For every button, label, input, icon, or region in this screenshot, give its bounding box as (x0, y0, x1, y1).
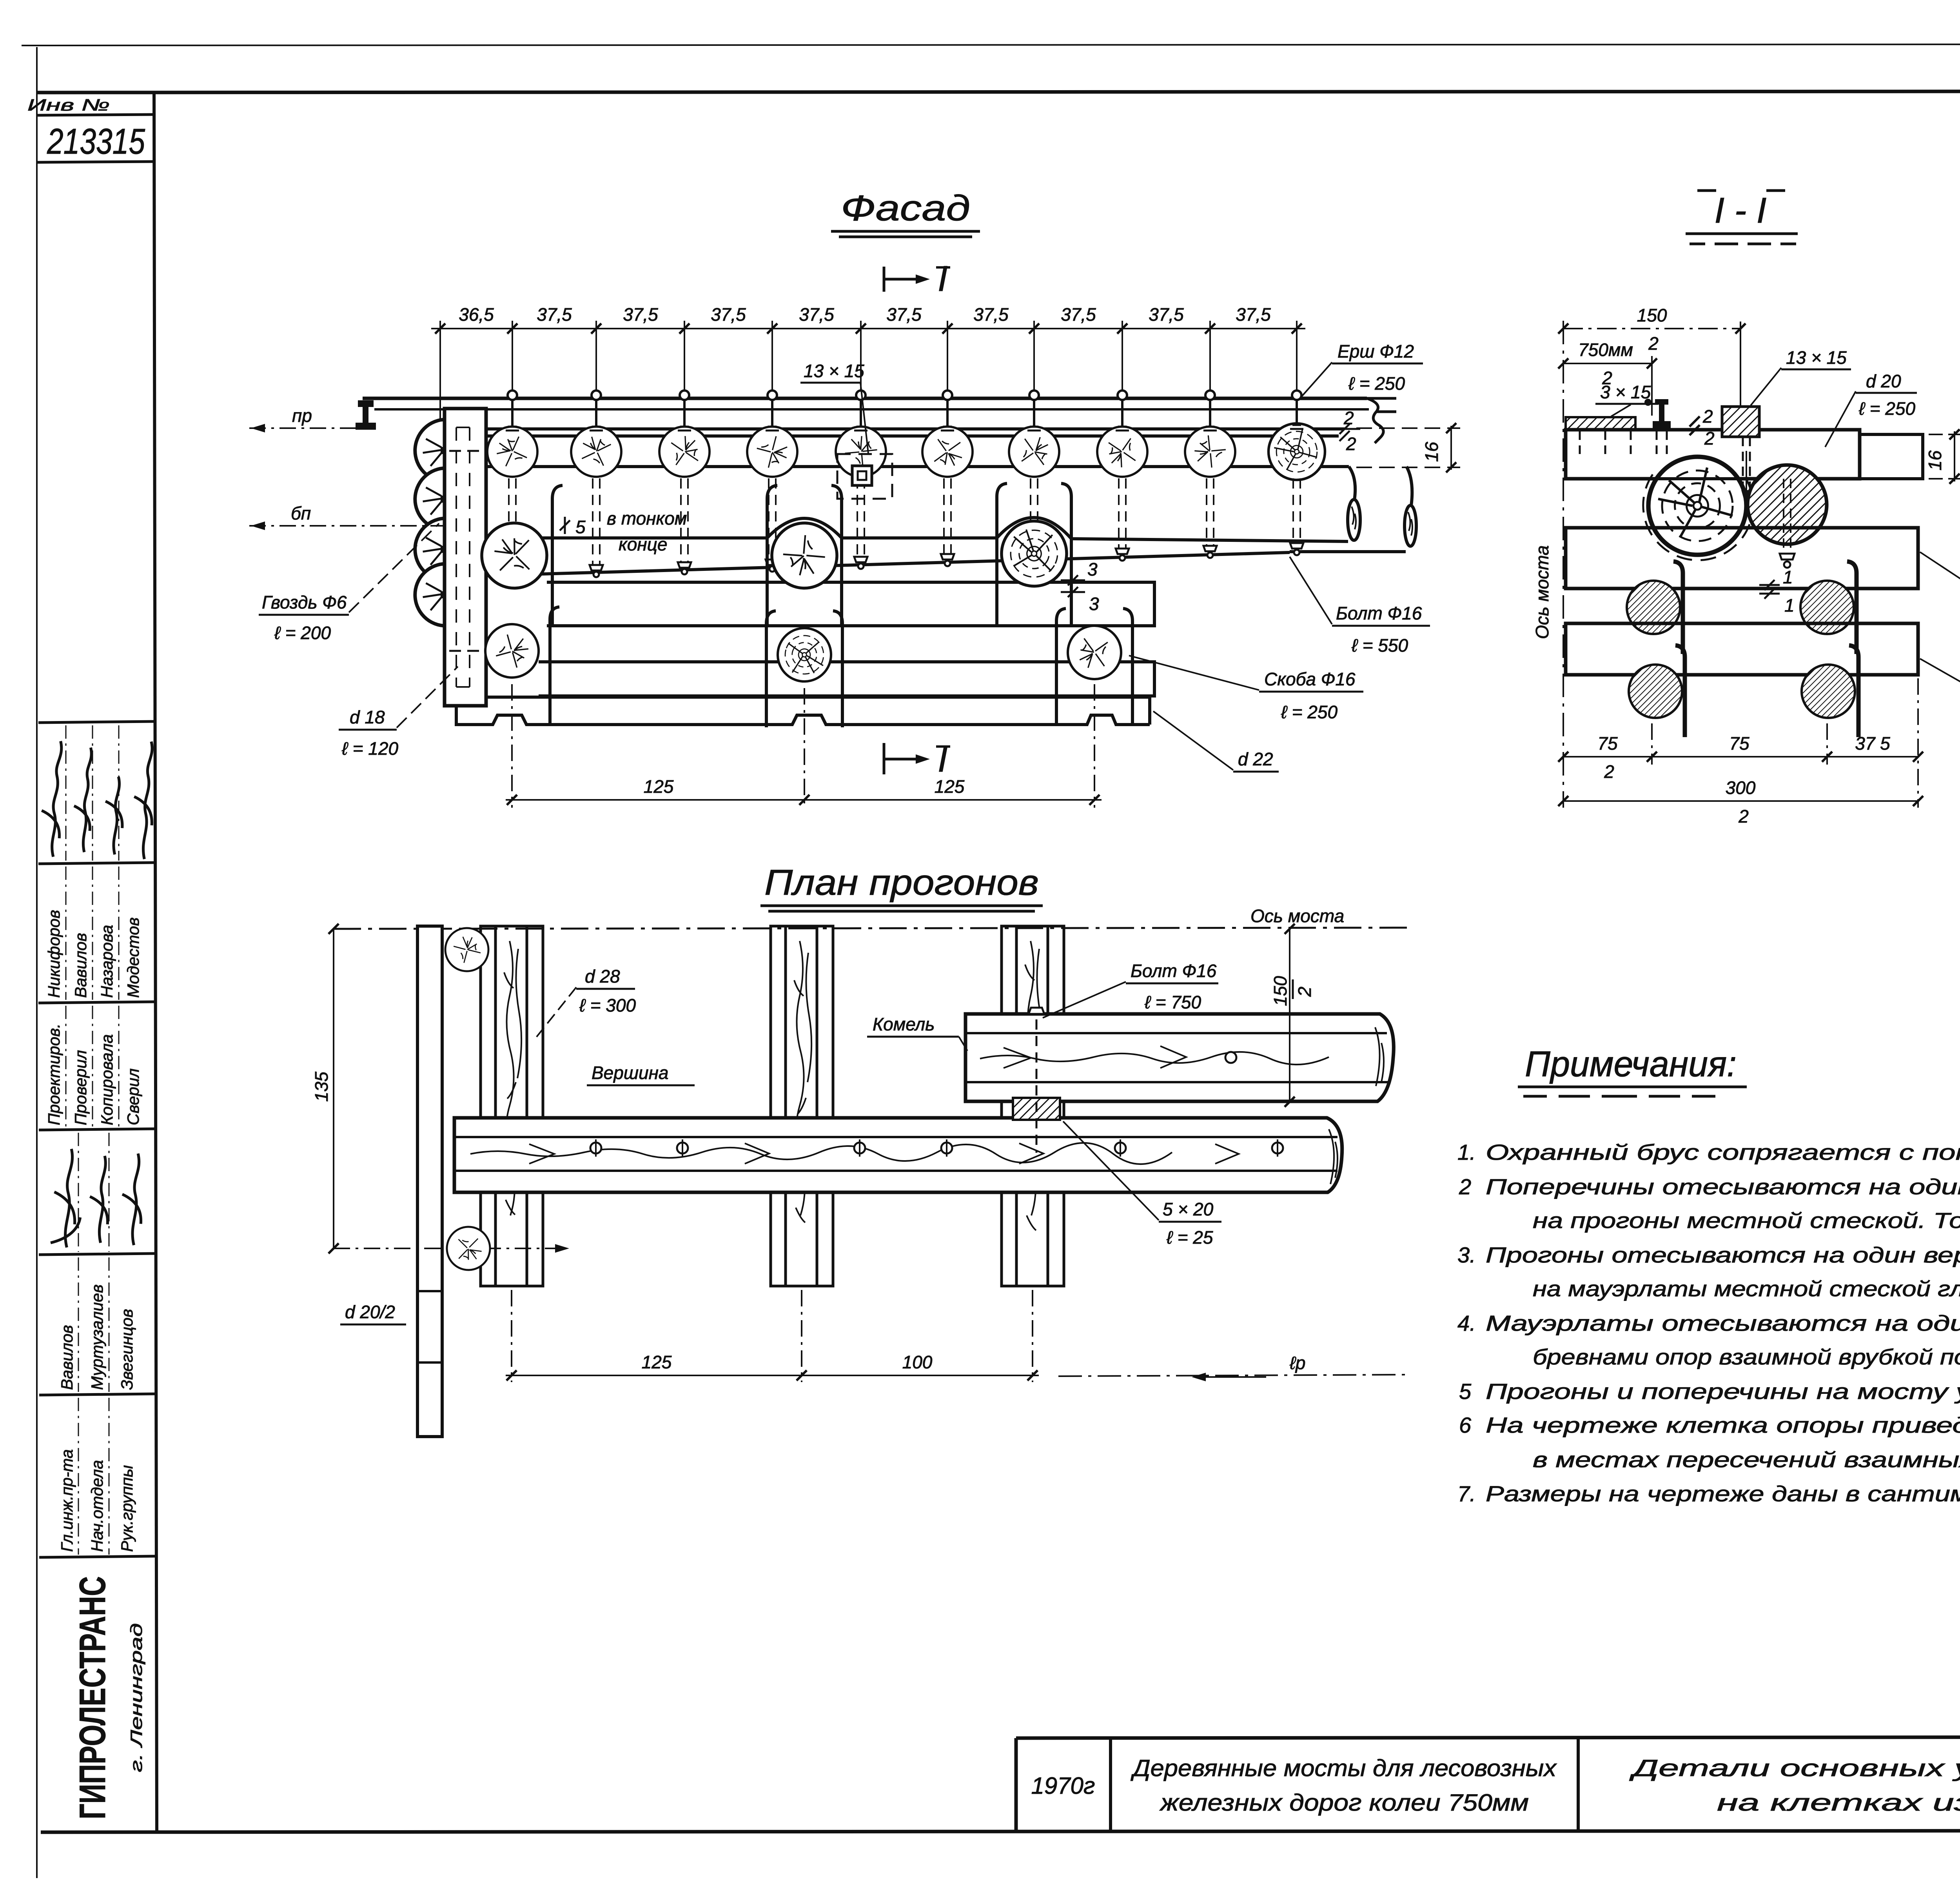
svg-text:75: 75 (1597, 733, 1618, 754)
bottom dim 125+100 (506, 1290, 1409, 1382)
svg-text:37,5: 37,5 (1236, 304, 1271, 325)
svg-text:Проектиров.: Проектиров. (45, 1024, 63, 1125)
svg-text:Болт Ф16: Болт Ф16 (1131, 961, 1217, 981)
crosstie circles row 1 (487, 416, 1325, 487)
svg-text:3: 3 (1087, 559, 1098, 579)
svg-text:d 28: d 28 (585, 966, 620, 986)
dimension labels 36.5 / 37.5 (459, 304, 1271, 325)
svg-text:Вершина: Вершина (592, 1063, 669, 1083)
svg-text:2: 2 (1346, 434, 1356, 454)
main border top (38, 91, 1960, 93)
svg-text:Ерш Ф12: Ерш Ф12 (1338, 341, 1414, 362)
names cell 1 (rotated) (45, 910, 142, 998)
deck beam top edge (363, 397, 1367, 400)
main border bottom (41, 1830, 1960, 1832)
svg-text:37,5: 37,5 (799, 304, 834, 325)
stamp column right edge (154, 93, 157, 1831)
svg-text:150: 150 (1270, 976, 1290, 1006)
svg-text:100: 100 (902, 1352, 933, 1372)
bottom dim row 1: 75/2 + 75 + 37.5 (1563, 678, 1918, 808)
bolt through pad dashed (1036, 1019, 1038, 1153)
dimension ticks (435, 323, 1302, 334)
svg-text:Никифоров: Никифоров (45, 910, 63, 998)
svg-text:37,5: 37,5 (711, 304, 746, 325)
STAMP COLUMN (left) (38, 114, 156, 1557)
dim 16 right (1929, 434, 1960, 435)
svg-text:300: 300 (1726, 778, 1756, 798)
bolt washer 13x15 on beam (1722, 407, 1759, 437)
main girder log (top end right) (454, 1118, 1342, 1192)
tie-bolt heads on circles (506, 425, 1303, 431)
svg-text:ℓ = 300: ℓ = 300 (579, 995, 636, 1015)
svg-text:d 22: d 22 (1238, 749, 1273, 769)
girder circle hatched (right) (1748, 465, 1827, 544)
signatures cell 1 top (38, 721, 155, 723)
svg-text:Примечания:: Примечания: (1525, 1044, 1737, 1084)
roles cell 1 (rotated) (45, 1024, 142, 1125)
svg-text:Ось моста: Ось моста (1250, 906, 1344, 926)
lower crib beam (section) (1566, 623, 1918, 675)
svg-text:16: 16 (1925, 450, 1945, 470)
svg-text:5: 5 (1459, 1379, 1472, 1404)
svg-text:13 × 15: 13 × 15 (1786, 347, 1847, 368)
svg-text:37,5: 37,5 (623, 304, 658, 325)
crib band 1 (547, 582, 1154, 626)
svg-text:Прогоны и поперечины на мо: Прогоны и поперечины на мосту укладывают… (1486, 1379, 1960, 1404)
station 1 grain (504, 941, 521, 1215)
top dimension line (431, 321, 1305, 425)
svg-text:1.: 1. (1457, 1140, 1476, 1164)
crib circles row 3 (485, 624, 539, 678)
dash-dot separators names cell 1 (66, 725, 119, 1555)
bottom dim row 2: 300/2 (1563, 800, 1918, 802)
svg-text:Сверил: Сверил (124, 1068, 142, 1125)
svg-text:Рук.группы: Рук.группы (118, 1465, 136, 1552)
svg-text:d 20/2: d 20/2 (345, 1302, 395, 1322)
svg-text:37,5: 37,5 (537, 304, 572, 325)
rail level line bp (249, 525, 445, 527)
svg-text:На чертеже клетка опоры пр: На чертеже клетка опоры приведена из нео… (1486, 1413, 1960, 1437)
crosstie beam (section) (1566, 430, 1860, 479)
svg-text:Фасад: Фасад (841, 188, 970, 228)
svg-text:на прогоны местной стеской.: на прогоны местной стеской. Толщина попе… (1533, 1208, 1960, 1233)
svg-text:125: 125 (644, 776, 674, 797)
nail marks on half logs (441, 447, 447, 598)
left plank strip (plan) (417, 926, 442, 1437)
svg-text:Звегинцов: Звегинцов (118, 1309, 136, 1390)
svg-text:37,5: 37,5 (1061, 304, 1096, 325)
spike bolts above ties (508, 391, 1301, 427)
station 3 grain (1025, 941, 1042, 1230)
svg-text:4.: 4. (1457, 1311, 1476, 1335)
svg-text:37,5: 37,5 (973, 304, 1009, 325)
svg-text:ℓ = 250: ℓ = 250 (1281, 702, 1338, 722)
svg-text:d 20: d 20 (1866, 371, 1901, 391)
bolt through washer (1743, 437, 1750, 486)
nail arrows through plank (449, 451, 508, 651)
left scan edge line (36, 47, 38, 1878)
svg-text:на мауэрлаты местной стес: на мауэрлаты местной стеской глубиной 5с… (1533, 1276, 1960, 1301)
13x15 dashed cut square (837, 454, 892, 499)
dim 135 (left) (333, 929, 334, 1248)
svg-text:2: 2 (1738, 806, 1749, 827)
bridge axis line (334, 928, 1409, 929)
svg-text:в тонком: в тонком (607, 508, 687, 529)
svg-text:5: 5 (575, 517, 586, 537)
svg-text:Назарова: Назарова (98, 925, 116, 998)
svg-text:Вавилов: Вавилов (58, 1325, 76, 1390)
mauerlat beam (section) (1566, 528, 1918, 589)
svg-text:125: 125 (642, 1352, 672, 1372)
svg-text:Инв №: Инв № (27, 96, 110, 114)
svg-text:Прогоны отесываются на один: Прогоны отесываются на один верхний кант… (1486, 1243, 1960, 1267)
names cell 2 top (39, 1253, 156, 1255)
svg-text:Проверил: Проверил (71, 1050, 90, 1125)
svg-text:37 5: 37 5 (1855, 733, 1890, 754)
dim 2/2 at beam (1690, 416, 1700, 435)
svg-text:Деревянные мосты для лесово: Деревянные мосты для лесовозных (1131, 1755, 1557, 1781)
svg-text:2: 2 (1702, 406, 1713, 427)
crosstie log station 2 (plan) (771, 926, 833, 1286)
svg-text:2: 2 (1604, 761, 1614, 782)
svg-text:1: 1 (1783, 567, 1793, 587)
svg-text:3: 3 (1089, 594, 1099, 614)
svg-text:Поперечины отесываются на о: Поперечины отесываются на один верхний к… (1486, 1174, 1960, 1199)
bottom dim 125+125 (506, 684, 1102, 808)
svg-text:135: 135 (311, 1072, 332, 1102)
org cell top (39, 1556, 156, 1557)
svg-text:d 18: d 18 (350, 707, 385, 727)
svg-text:1: 1 (1784, 595, 1795, 616)
mini dim 1/1 (1759, 580, 1780, 599)
svg-text:I - I: I - I (1715, 191, 1767, 231)
svg-text:Вавилов: Вавилов (71, 933, 90, 998)
svg-text:План прогонов: План прогонов (764, 863, 1039, 903)
svg-text:в местах пересечений взаи: в местах пересечений взаимных врубок глу… (1533, 1447, 1960, 1472)
svg-text:2: 2 (1459, 1174, 1471, 1199)
girder log 2 right end silhouette + butt ellipse (1349, 467, 1355, 500)
section mark I (top) (884, 267, 918, 292)
svg-text:Скоба Ф16: Скоба Ф16 (1264, 669, 1356, 689)
svg-text:ГИПРОЛЕСТРАНС: ГИПРОЛЕСТРАНС (72, 1576, 113, 1819)
girder log 1 bottom edge (487, 465, 1349, 468)
svg-text:3 × 15: 3 × 15 (1600, 382, 1651, 402)
svg-text:ℓ = 200: ℓ = 200 (274, 623, 331, 643)
crib bottom log with notches (456, 697, 1150, 725)
mauerlat log bottom edge (tapered) (487, 552, 1290, 576)
svg-text:Болт Ф16: Болт Ф16 (1336, 603, 1422, 623)
girder bolts (plan) (590, 1143, 1283, 1154)
svg-text:37,5: 37,5 (886, 304, 922, 325)
washer pad 5x20 at station3 crossing (1013, 1098, 1060, 1120)
top log end circle (445, 928, 488, 971)
svg-text:ℓ = 25: ℓ = 25 (1166, 1227, 1213, 1248)
bridge axis vertical (1563, 321, 1564, 808)
inv no box divider lines (38, 114, 154, 115)
svg-text:37,5: 37,5 (1149, 304, 1184, 325)
extension lines (439, 321, 441, 425)
svg-text:Охранный брус сопрягается с: Охранный брус сопрягается с поперечинами… (1486, 1140, 1960, 1164)
station 2 grain (794, 941, 811, 1223)
square washer inside (852, 466, 872, 485)
plank wall (zabornaya stenka) (445, 409, 486, 706)
dim 750mm/2 (1563, 363, 1652, 364)
hanger bolts dashed below ties with heads (509, 478, 1300, 568)
svg-text:3.: 3. (1457, 1243, 1476, 1267)
svg-text:ℓ = 250: ℓ = 250 (1858, 398, 1915, 419)
girder tongue right (1860, 434, 1923, 479)
big girder circle (rings) with unhewn dashed contour (1648, 457, 1746, 555)
svg-text:Размеры на чертеже даны в: Размеры на чертеже даны в сантиметрах , … (1486, 1481, 1960, 1506)
svg-text:213315: 213315 (47, 122, 145, 162)
dim 150/2 (1563, 328, 1740, 329)
svg-text:Модестов: Модестов (124, 917, 142, 998)
svg-text:2: 2 (1648, 333, 1659, 354)
staples (1673, 561, 1857, 654)
crib circles row 2 (hatched) (1629, 665, 1682, 718)
beam break zigzag (1367, 398, 1396, 443)
svg-text:Детали основных узлов мо: Детали основных узлов мостов (1629, 1755, 1960, 1781)
signatures cell 2 scribbles (51, 1149, 141, 1247)
signatures cell 2 top (39, 1129, 155, 1130)
svg-text:Муртузалиев: Муртузалиев (88, 1284, 106, 1390)
section mark I (bottom) (884, 743, 918, 774)
svg-text:75: 75 (1729, 733, 1749, 754)
svg-text:750мм: 750мм (1578, 340, 1633, 360)
svg-text:2: 2 (1704, 428, 1715, 449)
bolt through right circle (1783, 479, 1784, 554)
svg-text:Ось моста: Ось моста (1532, 545, 1552, 639)
svg-text:Гвоздь Ф6: Гвоздь Ф6 (262, 592, 347, 612)
svg-text:150: 150 (1637, 305, 1667, 325)
svg-text:Комель: Комель (873, 1014, 935, 1034)
deck beam bottom edge (486, 427, 1345, 431)
rail level line pr (249, 427, 360, 429)
svg-text:г. Ленинград: г. Ленинград (127, 1623, 145, 1772)
nails below plank (1580, 431, 1667, 458)
mauerlat log top edge with humps (487, 518, 1348, 541)
svg-text:Мауэрлаты отесываются на: Мауэрлаты отесываются на один верхний ка… (1486, 1311, 1960, 1335)
facade circles and fittings (249, 391, 1325, 727)
top scan edge line (22, 44, 1960, 45)
crosstie log station 3 (plan) (1002, 926, 1064, 1286)
rail profile (left end) (356, 400, 376, 430)
upper girder log (butt end right) (965, 1014, 1394, 1101)
dim 150/2 (right) (1289, 929, 1290, 1102)
svg-text:ℓ = 550: ℓ = 550 (1351, 635, 1408, 656)
svg-text:7.: 7. (1457, 1481, 1476, 1506)
svg-text:ℓ = 750: ℓ = 750 (1144, 992, 1201, 1012)
svg-text:2: 2 (1294, 986, 1315, 997)
crib log ends (half logs) left of plank (415, 420, 446, 481)
roles cell 2 (rotated) (58, 1449, 136, 1552)
svg-text:36,5: 36,5 (459, 304, 494, 325)
title underline (831, 231, 980, 237)
staples at row 3 (550, 607, 1132, 727)
bottom log end circle with axis (334, 1248, 564, 1249)
rail profile (1644, 399, 1671, 430)
crib circles row (hatched) (1627, 581, 1680, 634)
crib band 2 (539, 662, 1154, 696)
roles cell 2 top (39, 1394, 156, 1395)
dim 16 right (1356, 423, 1460, 472)
signatures cell 1 scribbles (42, 741, 152, 859)
deck beam mid line (374, 408, 1369, 411)
svg-text:1970г: 1970г (1031, 1773, 1095, 1799)
names cell 1 top (38, 863, 155, 864)
svg-text:13 × 15: 13 × 15 (804, 361, 864, 381)
girder log 3 right end silhouette + butt ellipse (1406, 467, 1412, 506)
svg-text:Копировала: Копировала (98, 1034, 116, 1125)
svg-text:пр: пр (292, 405, 312, 426)
svg-text:6: 6 (1459, 1413, 1472, 1437)
svg-text:Гл.инж.пр-та: Гл.инж.пр-та (58, 1449, 76, 1552)
roles cell 1 top (38, 1002, 155, 1003)
svg-text:конце: конце (619, 534, 668, 554)
names cell 2 (rotated) (58, 1284, 136, 1390)
svg-text:железных дорог колеи 750мм: железных дорог колеи 750мм (1159, 1789, 1529, 1816)
svg-text:I: I (938, 259, 948, 299)
plank hidden dashed lines (456, 427, 470, 687)
svg-text:5 × 20: 5 × 20 (1163, 1199, 1214, 1219)
svg-text:ℓ = 120: ℓ = 120 (341, 738, 398, 759)
girder circles row 2 (482, 523, 547, 588)
svg-text:Нач.отдела: Нач.отдела (88, 1460, 106, 1552)
staples (skoba) at row 2 (552, 483, 1071, 626)
svg-text:ℓ = 250: ℓ = 250 (1348, 373, 1405, 394)
dim 3/3 at row2 circle (1061, 575, 1085, 597)
svg-text:бп: бп (291, 503, 311, 523)
svg-text:бревнами опор взаимной вруб: бревнами опор взаимной врубкой по 3 см (1533, 1344, 1960, 1369)
crosstie log station 1 (plan) (481, 926, 543, 1286)
facade labels and dims (259, 341, 1460, 808)
svg-text:на клетках из бревен: на клетках из бревен (1717, 1789, 1960, 1816)
guard plank 3x15 (hatched) (1566, 417, 1635, 430)
girder log 1 side (behind tie circles) top edge (487, 434, 1339, 438)
svg-text:16: 16 (1421, 441, 1442, 462)
svg-text:ℓр: ℓр (1289, 1353, 1305, 1373)
